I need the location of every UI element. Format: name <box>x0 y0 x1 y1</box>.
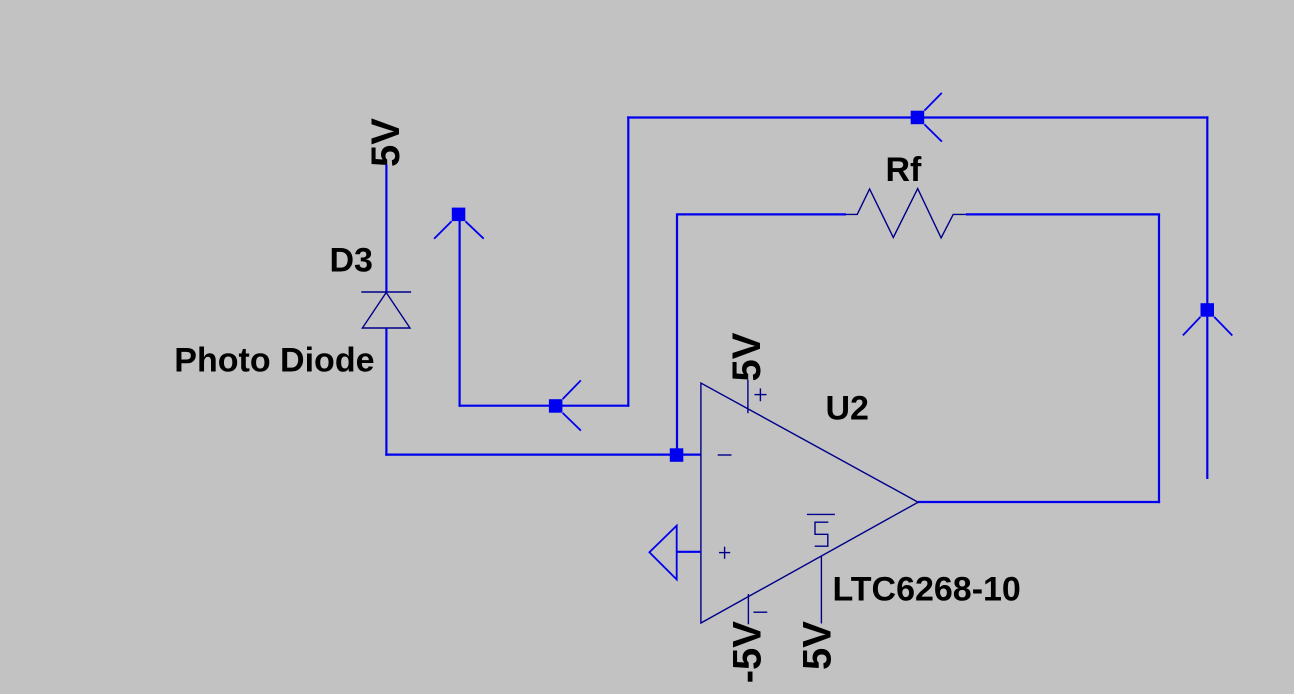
junction node at inverting input <box>670 448 684 462</box>
pin V- stub <box>747 594 749 624</box>
svg-text:5V: 5V <box>796 621 840 670</box>
op-amp U2 <box>701 380 918 625</box>
node marker D (square with up arrow on right wire) <box>1183 303 1232 335</box>
svg-text:5V: 5V <box>725 332 769 381</box>
input port symbol (non-inverting input) <box>649 526 676 580</box>
wire <box>385 454 701 456</box>
svg-text:Photo Diode: Photo Diode <box>174 342 374 380</box>
wire <box>459 221 461 407</box>
wire <box>677 551 701 553</box>
svg-text:Rf: Rf <box>886 151 923 189</box>
wire <box>627 116 1208 118</box>
svg-text:-5V: -5V <box>725 621 769 684</box>
resistor Rf <box>846 189 966 238</box>
pin V+ stub <box>747 380 749 414</box>
inverting input minus tick <box>718 454 732 456</box>
wire <box>1158 214 1160 503</box>
diode D3 <box>361 292 411 328</box>
wire <box>459 405 630 407</box>
minus tick at V- pin <box>753 611 767 613</box>
node marker B (square with left arrow) <box>549 380 581 430</box>
wire <box>918 501 1160 503</box>
wire <box>385 165 387 293</box>
svg-text:5V: 5V <box>364 118 408 167</box>
node marker A (square with up arrow) <box>434 208 484 239</box>
svg-text:LTC6268-10: LTC6268-10 <box>833 570 1021 608</box>
shutdown pin glyph 5 with overline <box>807 513 835 515</box>
pin shutdown stub <box>820 557 822 624</box>
wire <box>627 116 629 406</box>
wire <box>966 213 1160 215</box>
plus tick at V+ pin <box>755 394 767 396</box>
node marker C (square with left arrow on top wire) <box>911 93 942 142</box>
svg-text:D3: D3 <box>330 242 373 280</box>
wire <box>677 213 846 215</box>
non-inverting input plus tick <box>719 552 730 554</box>
svg-text:U2: U2 <box>826 390 869 428</box>
wire <box>385 329 387 456</box>
wire <box>1206 116 1208 479</box>
wire <box>676 213 678 455</box>
